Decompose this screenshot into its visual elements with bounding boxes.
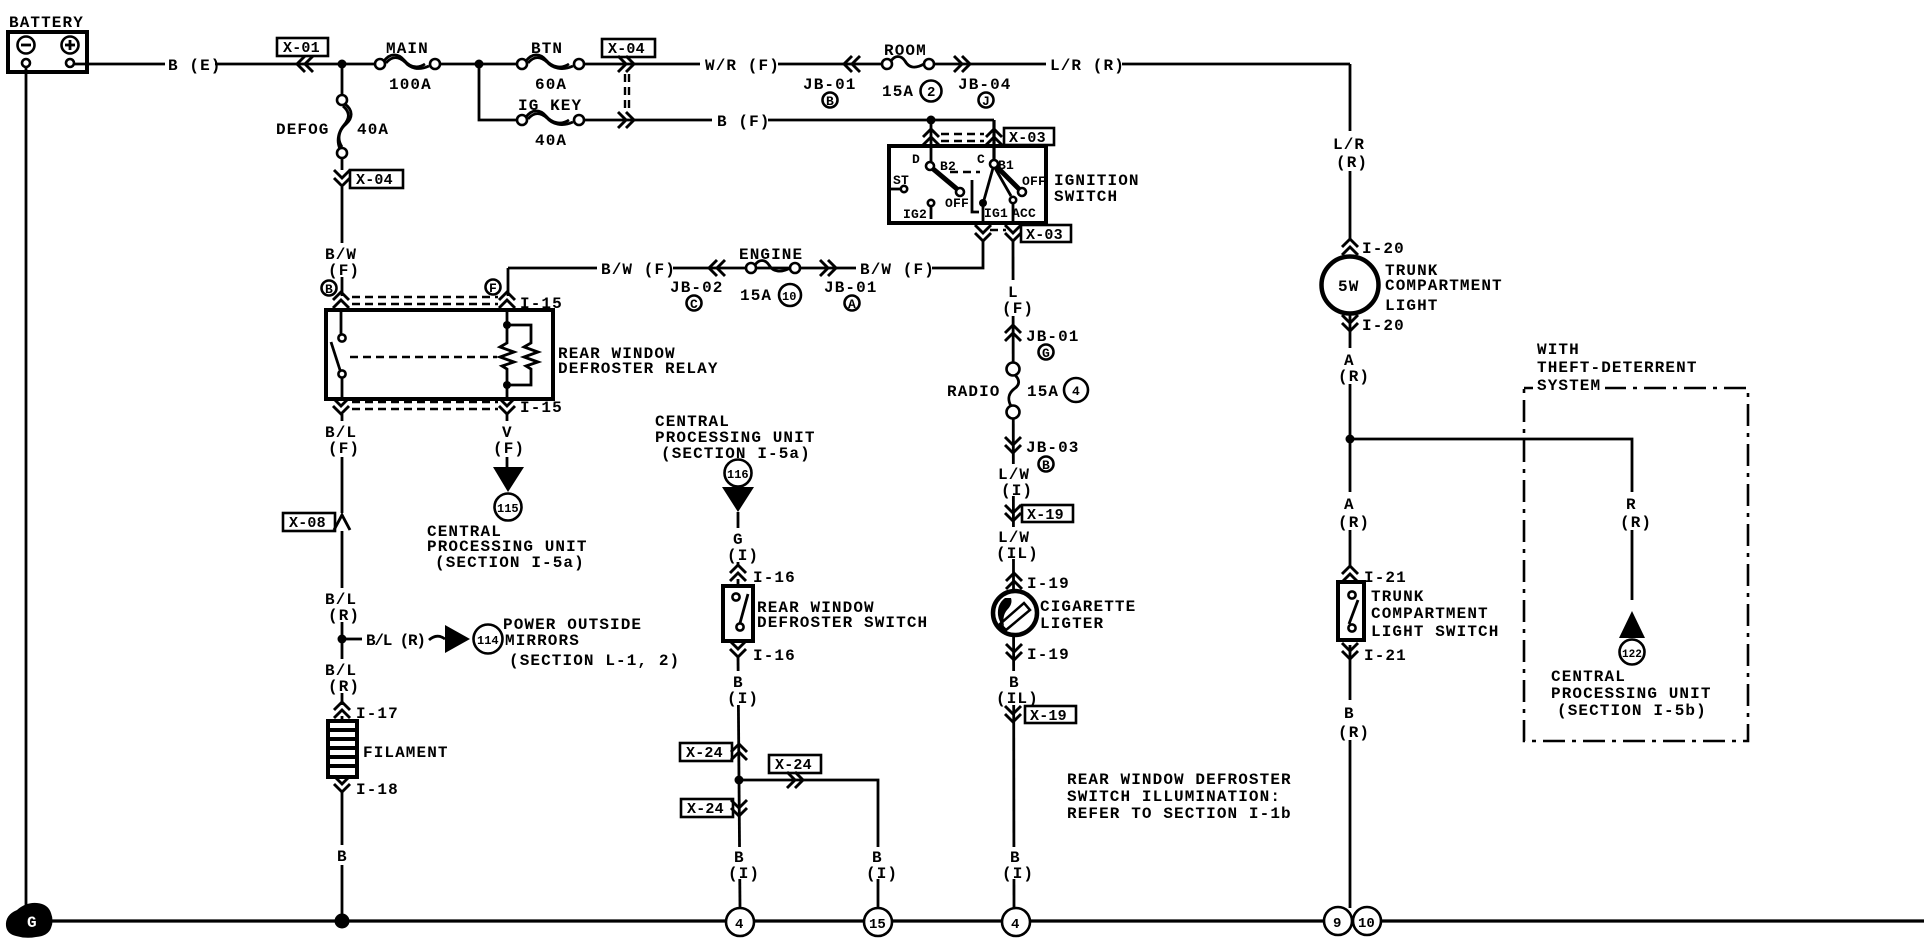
inline label B (F) [712,110,771,131]
svg-text:(F): (F) [493,440,525,458]
svg-text:COMPARTMENT: COMPARTMENT [1385,277,1503,295]
cigarette lighter [993,591,1136,635]
label B (R) [1335,700,1370,742]
svg-text:A: A [1344,496,1355,514]
svg-text:B/W (F): B/W (F) [860,261,935,279]
wire IG1 to engine fuse row [508,241,983,268]
svg-text:OFF: OFF [945,196,969,211]
label B/L (R) [320,588,364,625]
wire B (I) switch to X-24 [738,656,739,780]
svg-text:G: G [1042,346,1050,361]
wire B filament to ground bus [341,791,344,919]
ignition switch X-03 top boundary [923,128,1054,147]
svg-text:B: B [1344,705,1355,723]
fuse ROOM 15A (2) [882,42,942,102]
svg-text:116: 116 [727,468,749,482]
svg-text:CENTRAL: CENTRAL [1551,668,1626,686]
connector I-16 bottom [730,641,796,665]
fuse MAIN 100A [375,40,440,94]
svg-text:122: 122 [1622,649,1642,661]
svg-text:D: D [912,152,920,167]
svg-text:115: 115 [497,502,519,516]
svg-text:15: 15 [869,917,886,933]
svg-text:(I): (I) [1002,865,1034,883]
svg-text:JB-03: JB-03 [1026,439,1080,457]
wire into ignition switch B2 [930,120,933,162]
label B/L (R) [320,659,364,696]
svg-text:I-19: I-19 [1027,575,1070,593]
svg-text:PROCESSING UNIT: PROCESSING UNIT [1551,685,1712,703]
connector I-15 top boundary [333,292,563,313]
inline label B/W (F) right [856,258,935,279]
svg-text:SWITCH: SWITCH [1054,188,1118,206]
svg-text:REAR WINDOW DEFROSTER: REAR WINDOW DEFROSTER [1067,771,1292,789]
svg-text:100A: 100A [389,76,432,94]
svg-text:RADIO: RADIO [947,383,1001,401]
inline label L/R (R) [1046,54,1125,75]
svg-text:(R): (R) [328,678,360,696]
svg-text:I-18: I-18 [356,781,399,799]
svg-text:(R): (R) [1336,154,1368,172]
label L/W (I) [997,464,1033,500]
ground circle 4 lighter column [1002,908,1030,936]
svg-text:WITH: WITH [1537,341,1580,359]
junction node mirrors branch [338,635,347,644]
junction node on ground bus [335,914,350,929]
svg-text:X-08: X-08 [289,515,326,532]
fuse ENGINE 15A (10) [739,246,803,306]
wire row1 BTN to ROOM fuse [584,63,881,66]
note rear window defroster switch illumination [1067,771,1292,823]
inline label B/W (F) left [597,258,676,279]
svg-text:(R): (R) [328,607,360,625]
svg-text:(F): (F) [328,262,360,280]
connector I-19 top [1006,573,1070,593]
svg-text:CIGARETTE: CIGARETTE [1040,598,1136,616]
svg-text:40A: 40A [357,121,389,139]
wire into ignition switch B1 [992,120,995,160]
svg-text:G: G [27,914,37,932]
branch to power outside mirrors [346,616,680,670]
wire row1 ROOM to L/R corner [934,63,1350,66]
svg-text:9: 9 [1333,916,1341,932]
svg-text:10: 10 [1358,916,1375,932]
svg-text:IG KEY: IG KEY [518,97,582,115]
svg-text:B: B [325,282,333,297]
svg-text:DEFROSTER RELAY: DEFROSTER RELAY [558,360,719,378]
svg-text:I-21: I-21 [1364,569,1407,587]
connector X-24 lower [681,799,747,818]
connector X-01 [277,38,328,72]
connector I-20 bottom [1342,315,1405,335]
inline label W/R (F) [700,54,780,75]
connector X-08 [283,513,350,532]
svg-text:IG1: IG1 [984,206,1008,221]
svg-text:(R): (R) [1338,368,1370,386]
svg-text:REFER TO SECTION I-1b: REFER TO SECTION I-1b [1067,805,1292,823]
svg-text:X-24: X-24 [687,801,724,818]
label R (R) [1617,492,1652,532]
CPU terminal 116 triangle [722,460,754,567]
svg-text:(I): (I) [727,547,759,565]
svg-text:B: B [826,94,834,109]
svg-text:(SECTION I-5a): (SECTION I-5a) [435,554,585,572]
label B (I) lighter column [999,847,1034,883]
CPU terminal triangle 115 [427,467,588,572]
svg-text:THEFT-DETERRENT: THEFT-DETERRENT [1537,359,1698,377]
ground bus wire [46,919,1924,922]
connector I-19 bottom [1006,644,1070,664]
fuse BTN 60A [517,40,584,94]
ground circle 10 [1353,907,1381,935]
branch wire to theft-deterrent CPU [1350,439,1632,600]
svg-text:I-21: I-21 [1364,647,1407,665]
svg-text:(SECTION L-1, 2): (SECTION L-1, 2) [509,652,680,670]
terminal circle B [322,281,337,298]
connector X-24 upper [680,743,747,762]
svg-text:I-15: I-15 [520,399,563,417]
junction node B(F)/ignition [927,116,936,125]
svg-text:LIGHT SWITCH: LIGHT SWITCH [1371,623,1499,641]
branch wire to circle 15 [739,780,878,908]
svg-text:ROOM: ROOM [884,42,927,60]
svg-text:X-24: X-24 [775,757,812,774]
svg-text:I-20: I-20 [1362,317,1405,335]
connector I-21 top [1342,566,1407,587]
wire ACC column down from ignition [1013,241,1014,908]
CPU (SECTION I-5a) middle label [655,413,816,463]
svg-text:C: C [690,297,698,312]
svg-text:(I): (I) [1001,482,1033,500]
filament (rear window defroster grid) [328,716,449,777]
wire row2 junction down and IG KEY row [479,64,517,120]
connector X-04 row1/row2 [602,39,655,128]
svg-text:B/L (R): B/L (R) [366,632,425,650]
svg-text:(F): (F) [328,440,360,458]
svg-text:(IL): (IL) [996,545,1039,563]
ground circle 9 [1324,907,1352,935]
with theft-deterrent system label [1537,341,1698,377]
wire B/L (R) X-08 to junction [341,531,344,639]
connector JB-04 J [954,56,1012,109]
svg-text:L/R (R): L/R (R) [1050,57,1125,75]
svg-text:4: 4 [1072,384,1080,399]
wire engine row down to relay coil [507,268,510,296]
svg-text:L/R: L/R [1333,136,1365,154]
svg-text:LIGHT: LIGHT [1385,297,1439,315]
svg-text:15A: 15A [1027,383,1059,401]
connector X-04 defog [334,170,403,189]
wire A (R) light to junction [1349,312,1352,568]
svg-text:DEFOG: DEFOG [276,121,330,139]
CPU terminal triangle 122 [1551,611,1712,720]
wire row2 to ignition switch [584,119,994,122]
connector I-18 [334,776,399,799]
label B/W (F) [320,243,364,280]
svg-text:F: F [489,281,497,296]
body ground symbol [6,903,53,938]
connector I-20 top [1342,239,1405,258]
connector JB-02 C [670,260,725,312]
ground circle 4 [726,908,754,936]
svg-text:(I): (I) [727,690,759,708]
wire row1 MAIN to BTN [440,63,517,66]
svg-text:JB-02: JB-02 [670,279,724,297]
label A (R) [1335,348,1370,386]
label L/W (IL) [995,527,1039,563]
ignition switch X-03 bottom boundary [975,225,1071,244]
svg-text:X-03: X-03 [1026,227,1063,244]
svg-text:SYSTEM: SYSTEM [1537,377,1601,395]
svg-text:B: B [1042,458,1050,473]
label A (R) lower [1335,492,1370,532]
svg-text:J: J [982,94,990,109]
trunk compartment light switch [1338,582,1499,641]
svg-text:5W: 5W [1338,278,1359,296]
inline label B (E) [165,54,222,75]
svg-text:COMPARTMENT: COMPARTMENT [1371,605,1489,623]
svg-text:I-16: I-16 [753,569,796,587]
svg-text:15A: 15A [740,287,772,305]
svg-text:OFF: OFF [1022,174,1046,189]
svg-text:(R): (R) [1620,514,1652,532]
junction node X-24 branch [735,776,744,785]
svg-text:(I): (I) [866,865,898,883]
svg-text:4: 4 [1011,917,1019,933]
svg-text:B (E): B (E) [168,57,222,75]
junction node row1/row2 [475,60,484,69]
svg-text:ACC: ACC [1012,206,1036,221]
connector X-24 branch [769,755,821,788]
svg-text:DEFROSTER SWITCH: DEFROSTER SWITCH [757,614,928,632]
label SYSTEM over box edge [1533,375,1605,395]
svg-text:40A: 40A [535,132,567,150]
wire B/L (R) junction to I-17 [341,639,344,705]
svg-text:X-24: X-24 [686,745,723,762]
connector I-21 bottom [1342,643,1407,665]
wire B/W (F) defog to relay [341,187,344,296]
label L/R (R) vertical [1328,131,1372,172]
svg-text:60A: 60A [535,76,567,94]
connector X-19 upper [1005,505,1073,524]
label V (F) [486,421,528,458]
svg-text:SWITCH ILLUMINATION:: SWITCH ILLUMINATION: [1067,788,1281,806]
wire B (I) X-24 to ground circle 4 [739,780,740,908]
ground circle 15 [864,908,892,936]
svg-text:X-01: X-01 [283,40,320,57]
label B [332,845,352,866]
connector JB-01 A [820,260,878,312]
svg-text:(I): (I) [728,865,760,883]
wire battery negative to ground [25,67,28,908]
svg-text:4: 4 [735,917,743,933]
svg-text:10: 10 [782,290,796,304]
svg-text:LIGTER: LIGTER [1040,615,1104,633]
label B/L (F) [320,421,364,458]
svg-text:B (F): B (F) [717,113,771,131]
svg-text:A: A [848,297,856,312]
svg-text:15A: 15A [882,83,914,101]
svg-text:MIRRORS: MIRRORS [505,632,580,650]
label G (I) [724,528,759,565]
svg-text:FILAMENT: FILAMENT [363,744,449,762]
svg-text:X-19: X-19 [1027,507,1064,524]
connector JB-01 B [803,56,860,109]
battery [8,14,87,72]
terminal circle F [486,280,501,297]
svg-text:C: C [977,152,985,167]
svg-text:(F): (F) [1002,300,1034,318]
svg-text:BATTERY: BATTERY [9,14,84,32]
svg-text:2: 2 [927,85,936,101]
svg-text:B: B [337,848,348,866]
fuse DEFOG 40A column [276,64,389,170]
svg-text:B/W (F): B/W (F) [601,261,676,279]
svg-text:X-19: X-19 [1030,708,1067,725]
svg-text:W/R (F): W/R (F) [705,57,780,75]
svg-text:I-20: I-20 [1362,240,1405,258]
svg-text:ENGINE: ENGINE [739,246,803,264]
wire V (F) relay to CPU 115 [506,414,509,467]
svg-text:X-04: X-04 [356,172,393,189]
svg-text:114: 114 [477,634,499,648]
connector JB-03 B [1005,437,1080,473]
wire L/R (R) down right column [1349,64,1352,240]
svg-text:I-19: I-19 [1027,646,1070,664]
fuse IG KEY 40A [517,97,584,150]
junction node row1/DEFOG [338,60,347,69]
svg-text:I-17: I-17 [356,705,399,723]
svg-text:(R): (R) [1338,724,1370,742]
connector JB-01 G [1005,325,1080,361]
fuse RADIO 15A (4) [947,362,1088,419]
wire B(E) row1 battery to X-01 to MAIN fuse [74,63,375,66]
svg-text:TRUNK: TRUNK [1371,588,1425,606]
svg-text:X-04: X-04 [608,41,645,58]
svg-text:IG2: IG2 [903,207,927,222]
connector X-19 lower [1005,706,1076,725]
svg-text:R: R [1626,496,1637,514]
junction node theft branch [1346,435,1355,444]
label B (I) left [725,847,760,883]
svg-text:(SECTION I-5b): (SECTION I-5b) [1557,702,1707,720]
theft-deterrent dashed box [1524,388,1748,741]
connector I-15 bottom boundary [333,398,563,417]
wire B (R) switch to ground circles [1349,645,1352,908]
rear window defroster switch [723,579,928,641]
rear window defroster relay [326,310,719,399]
connector I-16 top [730,565,796,587]
ignition switch [889,146,1140,223]
connector I-17 [334,702,399,723]
trunk compartment light 5W [1322,257,1503,316]
label L (F) [999,280,1034,318]
wire B/L (F) relay to X-08 [341,414,344,513]
label B (I) right [863,847,898,883]
label B (IL) [995,671,1039,708]
label B (I) [724,671,759,708]
svg-text:(R): (R) [1338,514,1370,532]
svg-text:JB-01: JB-01 [1026,328,1080,346]
svg-text:I-16: I-16 [753,647,796,665]
